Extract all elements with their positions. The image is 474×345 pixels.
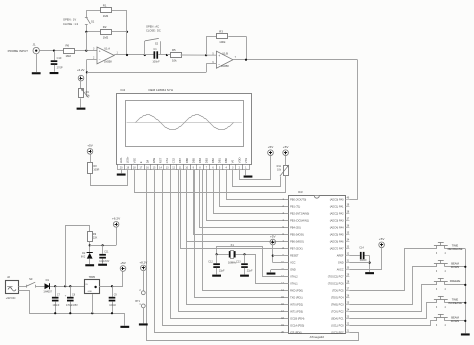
svg-text:PB7 (SCK): PB7 (SCK)	[290, 247, 303, 251]
wire	[126, 10, 128, 55]
wire LCD DB6 to PB6	[187, 170, 289, 242]
power +5V reset	[270, 239, 276, 245]
wire	[39, 50, 63, 52]
wire GND right	[349, 262, 369, 264]
pin 22 (SCL) PC0	[345, 325, 349, 327]
node	[464, 284, 466, 286]
potentiometer R11 contrast	[284, 166, 289, 176]
wire LCD control to PD3	[179, 170, 289, 312]
svg-text:−: −	[218, 62, 220, 66]
svg-text:U1:B: U1:B	[222, 52, 228, 56]
svg-text:FREEZE: FREEZE	[450, 279, 461, 283]
wire	[18, 286, 26, 288]
svg-text:(OC2) PD7: (OC2) PD7	[331, 331, 344, 335]
resistor R1	[86, 10, 100, 12]
pin 8 PB7 (SCK)	[285, 248, 289, 250]
connector BT1 pin B	[141, 304, 145, 308]
node	[464, 266, 466, 268]
wire LCD DB7 to PB7	[181, 170, 289, 249]
capacitor C1	[145, 54, 154, 56]
potentiometer R4	[79, 89, 84, 98]
wire feed to reference	[66, 226, 90, 287]
wire LCD control to PD6	[155, 170, 289, 333]
svg-text:IC2: IC2	[121, 88, 126, 92]
wire regulator ground	[92, 294, 94, 313]
svg-text:RST: RST	[159, 157, 163, 163]
wire LCD DB0 to PB0	[227, 170, 289, 200]
wire LCD DB4 to PB4	[200, 170, 289, 228]
svg-text:10µF/16V: 10µF/16V	[99, 261, 109, 263]
svg-text:D1: D1	[46, 278, 50, 282]
node	[85, 50, 87, 52]
svg-text:INT0 (PD2): INT0 (PD2)	[290, 303, 303, 307]
ground	[50, 72, 59, 74]
svg-text:RESET: RESET	[290, 254, 299, 258]
pin 37 (ADC3) PA3	[345, 220, 349, 222]
svg-text:DOWN: DOWN	[451, 319, 460, 323]
wire U1:B inverting input	[206, 63, 216, 65]
ground rail termination	[124, 313, 126, 325]
wire op-amp A inverting input	[87, 59, 97, 61]
svg-text:10k: 10k	[172, 59, 177, 63]
capacitor C7	[55, 286, 57, 297]
wire PC pin to button 3	[350, 285, 437, 312]
wire button common bus	[465, 249, 467, 333]
svg-text:IC3: IC3	[298, 190, 303, 194]
svg-text:C13: C13	[236, 260, 241, 263]
svg-text:VEE: VEE	[132, 158, 136, 164]
pin 38 (ADC2) PA2	[345, 213, 349, 215]
svg-text:100R: 100R	[93, 169, 99, 172]
svg-text:PROBE INPUT: PROBE INPUT	[8, 49, 29, 53]
node	[126, 54, 128, 56]
push button S4 TIME INCREASE	[436, 300, 438, 303]
svg-text:PB3 (OC0/AIN1): PB3 (OC0/AIN1)	[290, 219, 309, 223]
pin 27 (TDI) PC5	[345, 290, 349, 292]
node	[464, 302, 466, 304]
svg-text:VDD: VDD	[237, 157, 241, 163]
node	[64, 285, 66, 287]
wire GND pin	[271, 269, 288, 271]
node	[216, 253, 218, 255]
svg-text:+5V: +5V	[283, 145, 290, 149]
ground	[32, 72, 41, 74]
svg-text:1N4007: 1N4007	[43, 291, 52, 294]
svg-text:470µF/25V: 470µF/25V	[66, 304, 78, 307]
svg-text:J1: J1	[33, 43, 36, 47]
svg-text:S2: S2	[155, 41, 159, 45]
wire PC pin to button 5	[350, 321, 437, 326]
svg-text:LED-: LED-	[119, 157, 123, 163]
pin 16 INT0 (PD2)	[285, 304, 289, 306]
svg-text:OC1B (PD4): OC1B (PD4)	[290, 317, 304, 321]
svg-text:6V2: 6V2	[81, 256, 86, 259]
svg-text:(TOSC2) PC7: (TOSC2) PC7	[328, 275, 344, 279]
wire LCD pin 19 LED+ to R8	[91, 170, 128, 186]
node	[245, 59, 247, 61]
node	[369, 262, 371, 264]
svg-text:XTAL2: XTAL2	[290, 275, 298, 279]
svg-text:+: +	[218, 54, 220, 58]
svg-text:DB0: DB0	[224, 157, 228, 163]
capacitor C9	[112, 286, 114, 297]
resistor R5	[167, 54, 170, 56]
svg-text:CS2: CS2	[172, 157, 176, 163]
push button S5 BEAM DOWN	[436, 318, 438, 321]
svg-text:OPEN : 1V: OPEN : 1V	[63, 18, 76, 22]
svg-text:+6.2V: +6.2V	[77, 68, 85, 72]
svg-text:C14: C14	[359, 246, 364, 249]
svg-text:LM358: LM358	[221, 65, 229, 68]
svg-text:+5V: +5V	[268, 145, 275, 149]
pin 39 (ADC1) PA1	[345, 206, 349, 208]
wire pot top to +5V	[285, 156, 287, 166]
wire LCD control to PD4	[171, 170, 289, 319]
svg-text:100nF: 100nF	[360, 259, 368, 262]
svg-text:X1: X1	[231, 243, 235, 247]
wire	[143, 308, 145, 323]
node	[243, 253, 245, 255]
svg-text:100k: 100k	[219, 40, 226, 44]
pin 10 VCC	[285, 262, 289, 264]
svg-text:GND: GND	[290, 268, 296, 272]
op-amp U1:B	[216, 51, 233, 68]
svg-text:(SDA) PC1: (SDA) PC1	[331, 317, 344, 321]
pin 32 AREF	[345, 255, 349, 257]
pin 29 (TOSC2) PC7	[345, 276, 349, 278]
power +6.2V reference	[116, 227, 118, 245]
wire raw rail	[50, 286, 85, 288]
switch S2 AC/DC	[144, 54, 146, 56]
svg-text:GND: GND	[88, 291, 93, 293]
svg-text:PB6 (MISO): PB6 (MISO)	[290, 240, 304, 244]
svg-text:PB2 (INT2/AIN0): PB2 (INT2/AIN0)	[290, 212, 309, 216]
svg-text:+5V: +5V	[120, 261, 127, 265]
svg-text:ICP (PD6): ICP (PD6)	[290, 331, 302, 335]
svg-text:DB6: DB6	[185, 157, 189, 163]
svg-text:VCC: VCC	[290, 261, 296, 265]
LCD sine wave	[136, 115, 234, 130]
svg-text:U1:A: U1:A	[104, 47, 110, 51]
svg-text:C12: C12	[208, 260, 213, 263]
pin 18 OC1B (PD4)	[285, 318, 289, 320]
svg-text:S1: S1	[91, 19, 95, 23]
capacitor C11	[102, 245, 104, 254]
svg-text:CLOSE : 1:2: CLOSE : 1:2	[63, 22, 79, 26]
svg-text:(TDI) PC5: (TDI) PC5	[332, 289, 344, 293]
svg-text:DB3: DB3	[204, 157, 208, 163]
capacitor C8	[70, 286, 72, 297]
ground LCD pin 1	[245, 170, 247, 176]
wire RESET	[273, 255, 289, 257]
wire LCD DB3 to PB3	[207, 170, 289, 221]
svg-text:CLOSE : DC: CLOSE : DC	[146, 28, 161, 32]
wire LCD pin 18 VEE to pot bottom	[135, 170, 286, 193]
resistor R9 reference feed	[88, 232, 93, 242]
svg-text:DB7: DB7	[178, 157, 182, 163]
svg-text:DB4: DB4	[198, 157, 202, 163]
svg-text:INT1 (PD3): INT1 (PD3)	[290, 310, 303, 314]
ground	[365, 272, 374, 274]
svg-text:7805: 7805	[89, 275, 96, 279]
pin 23 (SDA) PC1	[345, 318, 349, 320]
svg-text:VSS: VSS	[244, 158, 248, 164]
node	[69, 312, 71, 314]
wire LCD control to PD0	[203, 170, 289, 291]
svg-text:AVCC: AVCC	[337, 268, 344, 272]
wire LCD control to PD7 wrap-around	[147, 170, 359, 341]
node	[102, 244, 104, 246]
svg-text:100nF: 100nF	[152, 59, 160, 63]
LCD pin row	[118, 165, 125, 170]
IC IC3 ATmega32	[289, 196, 346, 334]
pin 21 (OC2) PD7	[345, 332, 349, 334]
svg-text:C11: C11	[104, 251, 109, 254]
svg-text:270P: 270P	[57, 65, 63, 69]
resistor R2	[86, 31, 100, 33]
capacitor C12	[216, 254, 218, 263]
capacitor C10	[54, 51, 56, 61]
pin 25 (TMS) PC3	[345, 304, 349, 306]
svg-text:GND: GND	[338, 261, 344, 265]
LCD trace baseline	[127, 122, 242, 124]
connector J2 9V DC input	[6, 281, 19, 294]
power +5V AVCC	[379, 242, 385, 248]
svg-text:C1: C1	[153, 47, 157, 51]
svg-text:LED+: LED+	[126, 156, 130, 163]
node	[272, 255, 274, 257]
regulator U3 7805	[85, 280, 100, 294]
svg-text:DB5: DB5	[191, 157, 195, 163]
switch S1	[86, 25, 88, 51]
wire	[86, 32, 88, 51]
wire XTAL2	[217, 247, 289, 277]
svg-text:R5: R5	[172, 48, 176, 52]
crystal X1 16MHz	[217, 254, 229, 256]
wire reference	[90, 245, 116, 247]
wire	[357, 60, 359, 200]
ground	[98, 264, 107, 266]
pin 20 ICP (PD6)	[285, 332, 289, 334]
LCD module IC2 DEM128064	[117, 94, 252, 165]
svg-text:DOWN: DOWN	[451, 265, 460, 269]
wire LCD DB1 to PB1	[220, 170, 289, 207]
node	[464, 320, 466, 322]
connector BT1 pin A	[141, 291, 145, 295]
wire regulated rail	[99, 286, 123, 288]
svg-text:PB0 (XCK/T0): PB0 (XCK/T0)	[290, 198, 306, 202]
node	[126, 31, 128, 33]
diode D1 1N4007	[45, 283, 50, 289]
svg-text:(ADC7) PA7: (ADC7) PA7	[330, 247, 344, 251]
wire LCD pin 2 VDD to +5V	[240, 156, 271, 180]
svg-text:TIME: TIME	[452, 297, 459, 301]
svg-text:1M2: 1M2	[103, 35, 109, 39]
pin 40 (ADC0) PA0	[345, 199, 349, 201]
svg-text:(TDO) PC4: (TDO) PC4	[331, 296, 344, 300]
svg-text:(ADC2) PA2: (ADC2) PA2	[330, 212, 344, 216]
wire	[75, 50, 97, 52]
node	[69, 285, 71, 287]
pin 2 PB1 (T1)	[285, 206, 289, 208]
pin 19 OC1A (PD5)	[285, 325, 289, 327]
svg-text:(TCK) PC2: (TCK) PC2	[331, 310, 344, 314]
pin 14 RXD (PD0)	[285, 290, 289, 292]
node feedback U1:B	[205, 54, 207, 56]
svg-text:R3: R3	[219, 30, 223, 34]
node	[89, 244, 91, 246]
wire LCD DB2 to PB2	[214, 170, 289, 214]
pin 3 PB2 (INT2/AIN0)	[285, 213, 289, 215]
svg-text:+5V: +5V	[270, 234, 277, 238]
wire LCD control to PD2	[187, 170, 289, 305]
svg-text:C10: C10	[57, 56, 62, 60]
svg-text:PB5 (MOSI): PB5 (MOSI)	[290, 233, 304, 237]
svg-text:BEAM: BEAM	[451, 261, 459, 265]
node	[85, 31, 87, 33]
svg-text:+6.2V: +6.2V	[112, 217, 121, 221]
pin 30 AVCC	[345, 269, 349, 271]
svg-text:100nF: 100nF	[109, 304, 116, 307]
capacitor C13	[244, 254, 246, 263]
svg-text:XTAL1: XTAL1	[290, 282, 298, 286]
resistor R6	[64, 49, 75, 54]
svg-text:INCREASE: INCREASE	[448, 301, 462, 305]
svg-text:BEAM: BEAM	[451, 316, 459, 320]
svg-text:+5V: +5V	[87, 144, 94, 148]
svg-text:22K: 22K	[93, 237, 98, 240]
wire PC pin to button 1	[350, 249, 437, 291]
svg-text:PB1 (T1): PB1 (T1)	[290, 205, 300, 209]
svg-text:OC1A (PD5): OC1A (PD5)	[290, 324, 304, 328]
svg-text:R2: R2	[103, 25, 107, 29]
svg-text:AREF: AREF	[337, 254, 344, 258]
pin 4 PB3 (OC0/AIN1)	[285, 220, 289, 222]
svg-text:22pF: 22pF	[247, 270, 253, 273]
capacitor C14	[360, 252, 362, 259]
svg-text:(SCL) PC0: (SCL) PC0	[331, 324, 344, 328]
pin 36 (ADC4) PA4	[345, 227, 349, 229]
svg-text:D/I: D/I	[145, 160, 149, 164]
svg-text:S3: S3	[29, 277, 33, 281]
svg-text:−: −	[99, 58, 101, 62]
node	[53, 50, 55, 52]
ground	[85, 264, 94, 266]
svg-text:BT1: BT1	[135, 300, 140, 303]
wire XTAL1	[245, 255, 289, 284]
node	[111, 312, 113, 314]
svg-text:LM358: LM358	[104, 61, 112, 64]
svg-text:V0: V0	[231, 159, 235, 163]
pin 28 (TOSC1) PC6	[345, 283, 349, 285]
svg-text:(ADC6) PA6: (ADC6) PA6	[330, 240, 344, 244]
power +5V	[283, 150, 289, 156]
wire LCD control to PD5	[163, 170, 289, 326]
wire VCC	[273, 262, 289, 264]
pin 24 (TCK) PC2	[345, 311, 349, 313]
ground	[77, 108, 86, 110]
svg-text:DB2: DB2	[211, 157, 215, 163]
wire LCD DB5 to PB5	[194, 170, 289, 235]
push button S2 BEAM DOWN	[436, 264, 438, 267]
wire J2 return	[19, 291, 30, 314]
svg-text:(ADC3) PA3: (ADC3) PA3	[330, 219, 344, 223]
svg-text:+8.2V: +8.2V	[139, 260, 147, 264]
svg-text:ATmega32: ATmega32	[310, 335, 325, 339]
pin 15 TXD (PD1)	[285, 297, 289, 299]
svg-text:1M2: 1M2	[103, 14, 109, 18]
wire feedback to U1:B	[87, 72, 206, 74]
svg-text:(ADC0) PA0: (ADC0) PA0	[330, 198, 344, 202]
svg-text:PB4 (SS): PB4 (SS)	[290, 226, 301, 230]
pin 5 PB4 (SS)	[285, 227, 289, 229]
pin 34 (ADC6) PA6	[345, 241, 349, 243]
wire PC pin to button 4	[350, 303, 437, 319]
pin 1 PB0 (XCK/T0)	[285, 199, 289, 201]
pin 11 GND	[285, 269, 289, 271]
pin 35 (ADC5) PA5	[345, 234, 349, 236]
pin 6 PB5 (MOSI)	[285, 234, 289, 236]
svg-text:+: +	[99, 49, 101, 53]
ground	[139, 323, 148, 325]
svg-text:(ADC5) PA5: (ADC5) PA5	[330, 233, 344, 237]
svg-text:TXD (PD1): TXD (PD1)	[290, 296, 303, 300]
wire LCD control to PD1	[195, 170, 289, 298]
svg-text:(ADC1) PA1: (ADC1) PA1	[330, 205, 344, 209]
node	[54, 312, 56, 314]
svg-text:E: E	[139, 161, 143, 163]
svg-text:+9V DC: +9V DC	[6, 296, 16, 300]
push button S3 FREEZE	[436, 282, 438, 285]
svg-text:100nF: 100nF	[53, 304, 60, 307]
ground	[461, 333, 470, 335]
resistor R3 feedback	[206, 36, 208, 55]
wire ground rail	[29, 313, 125, 315]
pin 12 XTAL2	[285, 276, 289, 278]
power +5V	[87, 149, 93, 155]
node	[54, 285, 56, 287]
svg-text:TIME: TIME	[452, 243, 459, 247]
pin 26 (TDO) PC4	[345, 297, 349, 299]
pin 13 XTAL1	[285, 283, 289, 285]
node	[166, 54, 168, 56]
node	[91, 312, 93, 314]
svg-text:DB1: DB1	[218, 157, 222, 163]
ground	[240, 275, 249, 277]
switch S3 power	[26, 285, 28, 288]
wire LCD pin 3 V0 to potentiometer wiper	[233, 170, 281, 187]
svg-text:CS1: CS1	[165, 157, 169, 163]
ground LCD pin 20	[121, 170, 123, 174]
svg-text:(ADC4) PA4: (ADC4) PA4	[330, 226, 344, 230]
wire AREF	[349, 255, 360, 257]
svg-text:+5V: +5V	[379, 237, 386, 241]
pin 33 (ADC7) PA7	[345, 248, 349, 250]
svg-text:DECREASE: DECREASE	[448, 247, 463, 251]
svg-text:RXD (PD0): RXD (PD0)	[290, 289, 303, 293]
wire op-amp A output	[114, 54, 145, 56]
svg-text:DEM 128064 SYH: DEM 128064 SYH	[149, 88, 174, 92]
power +5V	[268, 150, 274, 156]
node	[111, 285, 113, 287]
resistor R8 backlight	[88, 163, 93, 174]
push button S1 TIME DECREASE	[436, 246, 438, 249]
wire	[36, 286, 45, 288]
LCD screen	[126, 101, 244, 147]
op-amp U1:A	[97, 47, 114, 64]
pin 17 INT1 (PD3)	[285, 311, 289, 313]
node feedback	[86, 71, 88, 73]
